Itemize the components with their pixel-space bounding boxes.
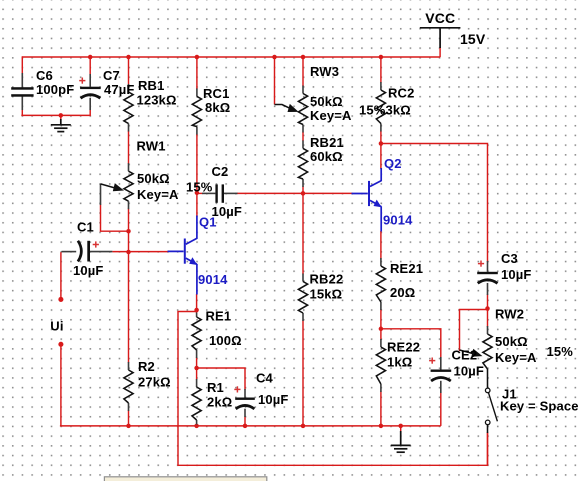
svg-text:15V: 15V (460, 31, 486, 47)
node Ui+ terminal (58, 297, 63, 302)
svg-text:Key=A: Key=A (495, 350, 537, 365)
wire C1 to Q1 base (112, 251, 168, 253)
resistor RC1 (192, 96, 201, 126)
capacitor C3 (polarized) (477, 272, 498, 284)
svg-text:Q1: Q1 (199, 214, 217, 229)
pin C4 top (244, 389, 246, 398)
svg-text:15%: 15% (186, 179, 213, 194)
wire RC1 top lead (196, 57, 198, 89)
svg-text:C4: C4 (256, 370, 274, 385)
pin RW2 top lead (487, 326, 489, 334)
C3 plus sign (478, 261, 484, 267)
capacitor CE2 (polarized) (431, 370, 452, 382)
wire RC2 bottom to Q2 collector (380, 131, 382, 169)
wire RW1 wiper (101, 205, 129, 232)
pin C2 left (202, 192, 215, 194)
pin C7 top (89, 74, 91, 87)
resistor R2 (124, 370, 133, 403)
C4 plus sign (234, 386, 240, 392)
capacitor C4 (polarized) (235, 398, 255, 409)
potentiometer RW1 (101, 171, 134, 201)
wire bottom ground rail (60, 425, 441, 427)
resistor RC2 (376, 90, 385, 124)
resistor RB22 (298, 282, 307, 314)
C7 plus sign (79, 78, 85, 84)
svg-text:9014: 9014 (198, 272, 228, 287)
wire C6 branch left (21, 56, 23, 74)
capacitor C1 (polarized) (78, 241, 90, 262)
svg-text:RC1: RC1 (203, 86, 229, 101)
wire node to CE2 (381, 329, 441, 358)
pin C1 right (90, 251, 113, 253)
svg-text:123kΩ: 123kΩ (137, 92, 177, 107)
pin C1 left (62, 251, 77, 253)
pin R1 leads (196, 379, 198, 387)
svg-text:CE2: CE2 (452, 347, 478, 362)
wire C6 bottom lead (21, 109, 23, 115)
pin C6 top (21, 73, 23, 88)
pin C3 top (487, 261, 489, 272)
transistor Q2 (NPN 9014) (352, 168, 382, 232)
svg-text:60kΩ: 60kΩ (310, 149, 343, 164)
wire CE2 bottom (440, 392, 442, 426)
wire RE1 node to C4 (197, 368, 245, 390)
svg-text:10µF: 10µF (258, 392, 289, 407)
wire C4 bottom (244, 416, 246, 426)
switch J1 (485, 369, 497, 433)
pin RC1 leads (196, 88, 198, 96)
pin RB21 leads (302, 140, 304, 148)
svg-text:10µF: 10µF (73, 263, 104, 278)
svg-text:2kΩ: 2kΩ (207, 394, 232, 409)
svg-text:Key=A: Key=A (310, 108, 352, 123)
capacitor C7 (polarized) (80, 87, 101, 99)
pin RE1 leads (196, 313, 198, 318)
svg-text:Q2: Q2 (384, 156, 402, 171)
pin C7 bottom (89, 98, 91, 110)
svg-text:RB21: RB21 (310, 135, 344, 150)
svg-text:20Ω: 20Ω (390, 285, 415, 300)
pin CE2 top (440, 357, 442, 370)
wire VCC lead lower (439, 47, 441, 57)
svg-text:Key = Space: Key = Space (500, 398, 579, 413)
svg-text:R1: R1 (207, 380, 224, 395)
pin C2 right (224, 192, 238, 194)
pin C4 bottom (244, 409, 246, 417)
svg-text:RW3: RW3 (310, 64, 339, 79)
wire RB21 bottom to node (302, 186, 304, 274)
wire C3 bottom to RW2 node (487, 294, 489, 308)
svg-text:C6: C6 (36, 68, 53, 83)
resistor RE22 (376, 347, 385, 384)
svg-text:50kΩ: 50kΩ (495, 334, 528, 349)
resistor R1 (192, 387, 201, 420)
resistor RE1 (192, 317, 201, 350)
wire Ui lower to bottom rail (60, 346, 62, 426)
svg-text:RE22: RE22 (387, 339, 420, 354)
svg-text:9014: 9014 (383, 212, 413, 227)
svg-text:15%3kΩ: 15%3kΩ (359, 103, 411, 118)
svg-text:RW1: RW1 (137, 138, 166, 153)
wire C2 to Q2 base (237, 192, 353, 194)
wire RC2 top lead (380, 57, 382, 83)
capacitor C2 (215, 184, 224, 202)
svg-text:RB22: RB22 (310, 271, 344, 286)
svg-text:C1: C1 (77, 219, 94, 234)
wire RW2 top lead (487, 309, 489, 327)
svg-text:RE1: RE1 (206, 308, 232, 323)
wire C1 input corner (60, 252, 62, 298)
resistor RE21 (376, 266, 385, 302)
svg-text:Ui: Ui (50, 318, 63, 333)
svg-text:RB1: RB1 (138, 78, 164, 93)
svg-text:C2: C2 (212, 164, 229, 179)
wire ground2 stub (400, 426, 402, 432)
svg-text:VCC: VCC (425, 10, 455, 26)
svg-text:100pF: 100pF (36, 82, 74, 97)
wire top VCC rail (22, 56, 440, 58)
junction node dots (58, 55, 489, 428)
svg-text:C3: C3 (501, 251, 518, 266)
potentiometer RW3 (275, 94, 308, 125)
pin RB22 leads (302, 274, 304, 282)
pin RW1 wiper upper (100, 184, 102, 205)
wire emitter feedback jog (178, 312, 488, 466)
svg-text:Key=A: Key=A (137, 187, 179, 202)
wire Q2 emitter to RE21 (380, 231, 382, 259)
pin RE22 leads (380, 339, 382, 347)
node Ui- terminal (58, 342, 63, 347)
wire RW2 wiper (460, 310, 488, 352)
svg-text:50kΩ: 50kΩ (310, 94, 343, 109)
CE2 plus sign (429, 358, 435, 364)
wire C6-C7 bottom (21, 109, 90, 115)
wire R1 bottom (196, 424, 198, 426)
svg-text:RW2: RW2 (495, 306, 524, 321)
capacitor C6 (11, 87, 33, 97)
pin C3 bottom (487, 283, 489, 295)
wire RW3 wiper drop (274, 57, 276, 105)
svg-text:50kΩ: 50kΩ (137, 171, 170, 186)
wire Q2 collector node to C3 (381, 144, 488, 262)
svg-text:C7: C7 (103, 68, 120, 83)
svg-text:15kΩ: 15kΩ (310, 286, 343, 301)
pin R2 leads (128, 362, 130, 370)
comment box bottom edge (104, 477, 266, 481)
svg-text:RC2: RC2 (388, 85, 414, 100)
svg-text:8kΩ: 8kΩ (205, 100, 230, 115)
wire C2 left lead (197, 192, 203, 194)
wire Q1 emitter to RE1 (196, 294, 198, 313)
pin RW3 leads (302, 86, 304, 94)
wire R2 column (128, 252, 130, 363)
svg-text:10µF: 10µF (454, 363, 485, 378)
pin RE21 leads (380, 258, 382, 266)
wire C7 top lead (89, 57, 91, 75)
pin RB1 leads (128, 84, 130, 92)
wire RE1 bottom to R1 (196, 357, 198, 379)
wire RC1 to Q1 collector node (196, 134, 198, 217)
pin RW1 leads (128, 163, 130, 171)
wire RB22 bottom (302, 320, 304, 426)
svg-text:R2: R2 (138, 359, 155, 374)
wire RE22 (380, 329, 382, 340)
svg-text:1kΩ: 1kΩ (387, 354, 412, 369)
wire J1 bottom lead (487, 432, 489, 465)
ground (under C6/C7) (51, 119, 71, 132)
wire RB1 column (rail to RW1 to C1 node) (128, 57, 130, 85)
pin C6 bottom (21, 97, 23, 111)
svg-text:100Ω: 100Ω (209, 333, 242, 348)
svg-text:RE21: RE21 (390, 261, 423, 276)
power VCC symbol (420, 28, 461, 48)
C1 plus sign (93, 241, 99, 247)
svg-text:10µF: 10µF (501, 267, 532, 282)
wire RE21 bottom to node (380, 309, 382, 329)
resistor RB1 (124, 92, 133, 124)
potentiometer RW2 (460, 334, 493, 369)
pin RC2 leads (380, 82, 382, 90)
svg-text:27kΩ: 27kΩ (138, 374, 171, 389)
wire ground1 stub (60, 115, 62, 119)
resistor RB21 (298, 148, 307, 179)
pin CE2 bottom (440, 381, 442, 393)
svg-text:47µF: 47µF (104, 82, 135, 97)
ground (bottom center) (391, 431, 411, 452)
transistor Q1 (NPN 9014) (168, 216, 198, 295)
svg-text:15%: 15% (547, 344, 574, 359)
wire RW3 column (302, 57, 304, 86)
